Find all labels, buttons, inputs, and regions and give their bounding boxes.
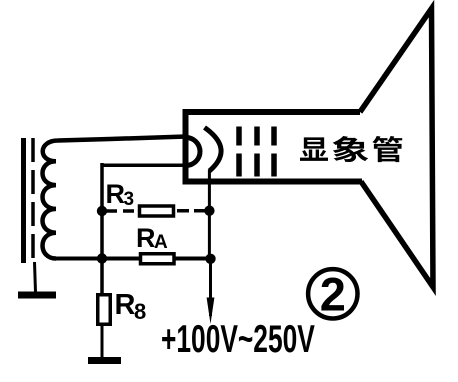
transformer core (solid bar) xyxy=(21,138,26,263)
node (junction dot RA left) xyxy=(97,253,107,263)
wire (cathode bottom lead, horizontal) xyxy=(102,163,185,167)
wire (vertical bus at x=102 down to R8) xyxy=(100,163,104,294)
transformer core (dashed bar) xyxy=(31,138,35,262)
arrow head (+100V supply arrow) xyxy=(207,298,215,325)
wire (arrow lead from RA right junction) xyxy=(209,260,212,316)
resistor RA (body) xyxy=(141,254,175,264)
node (junction dot RA right) xyxy=(205,254,215,264)
CRT heater (D-shaped filament) xyxy=(186,138,200,166)
svg-text:+100V~250V: +100V~250V xyxy=(161,318,315,361)
wire (dashed, R3 right to junction) xyxy=(177,209,206,213)
CRT neck envelope (open rectangle) xyxy=(186,112,363,182)
node (junction dot R3 left) xyxy=(97,206,107,216)
wire (core to ground) xyxy=(35,262,36,292)
CRT grid electrode bars column 3 xyxy=(271,127,277,177)
figure number circle 2 xyxy=(308,269,357,318)
wire (RA resistor to right junction) xyxy=(175,257,211,261)
wire (G1 lead down through neck to arrow junctions) xyxy=(208,170,211,260)
wire (R8 to ground) xyxy=(101,326,104,358)
inductor L (deflection/flyback winding) with top lead wire to CRT heater xyxy=(43,137,187,259)
wire (coil bottom / RA row, left segment to RA resistor) xyxy=(56,257,141,261)
node (junction dot R3 right) xyxy=(204,206,214,216)
svg-text:2: 2 xyxy=(320,268,346,321)
CRT grid G1 (curved electrode) xyxy=(205,128,222,172)
CRT funnel and screen xyxy=(360,9,433,288)
label 显象管 (picture tube), drawn as paths xyxy=(300,136,402,162)
CRT grid electrode bars column 2 xyxy=(254,127,260,177)
CRT grid electrode bars column 1 xyxy=(236,127,242,177)
ground (under R8) xyxy=(88,357,121,364)
resistor R3 (body) xyxy=(140,206,174,216)
ground (left, under transformer) xyxy=(18,292,56,299)
resistor R8 (body) xyxy=(98,295,111,325)
wire (dashed, junction to R3 left) xyxy=(106,209,136,213)
